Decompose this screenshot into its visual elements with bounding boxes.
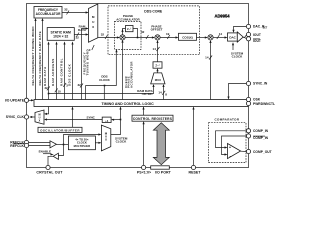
- static RAM box: [47, 28, 74, 41]
- svg-text:ACCUMULATOR: ACCUMULATOR: [116, 18, 140, 22]
- svg-text:19: 19: [166, 32, 170, 36]
- I/O PORT pin pad: [151, 166, 172, 175]
- delta frequency ramp rate wire: [38, 18, 44, 100]
- svg-text:I/O UPDATE: I/O UPDATE: [5, 99, 25, 103]
- control registers box: [132, 115, 173, 121]
- svg-text:10: 10: [58, 89, 62, 93]
- SYNC_IN pin: [246, 81, 268, 85]
- OSK multiplier: [208, 35, 213, 40]
- svg-text:SYNC_CLK: SYNC_CLK: [6, 115, 25, 119]
- wire ram to mux, 32 bits, RAM DATA: [74, 25, 88, 40]
- svg-text:COMP_IN: COMP_IN: [253, 129, 269, 133]
- wire node down to crystal out buffer: [58, 145, 63, 156]
- svg-text:CONTROL REGISTERS: CONTROL REGISTERS: [133, 117, 173, 121]
- svg-text:Z−¹: Z−¹: [155, 63, 159, 67]
- svg-text:DAC: DAC: [229, 35, 236, 39]
- DAC_RSET wire: [232, 27, 246, 33]
- svg-text:14: 14: [153, 47, 157, 51]
- svg-text:IOUT: IOUT: [253, 33, 261, 37]
- phase offset adder: [155, 35, 160, 40]
- refclk bypass wire to system mux: [64, 133, 102, 144]
- svg-text:IOUT: IOUT: [253, 39, 261, 43]
- wire cos to OSK multiplier: [197, 36, 208, 38]
- oscillator/buffer label box: [38, 127, 82, 132]
- SYNC_IN routing wire: [227, 84, 246, 100]
- wire phase offset adder to cos, 19 bits: [160, 32, 178, 39]
- wire oscillator to control bar: [71, 107, 73, 128]
- timing and control logic bar: [34, 100, 248, 107]
- I/O UPDATE pin wire: [29, 99, 34, 101]
- system clock label and wire into DAC: [231, 42, 244, 59]
- svg-text:32: 32: [64, 8, 68, 12]
- svg-text:RESET: RESET: [189, 170, 202, 174]
- I/O UPDATE pin: [5, 98, 29, 102]
- svg-text:OFFSET: OFFSET: [151, 28, 163, 32]
- wire mux to phase accumulator adder, 32 bits: [98, 32, 120, 39]
- COMP_INB routing wire: [222, 136, 247, 155]
- PWRDWNCTL pin: [246, 101, 275, 106]
- ENABLE label and wire: [39, 150, 54, 156]
- svg-text:SYNC_IN: SYNC_IN: [253, 82, 268, 86]
- wire OSK multiplier to DAC, 14 bits: [213, 32, 227, 39]
- wire clock multiplier to system mux: [95, 142, 101, 144]
- frequency mux: [89, 4, 98, 42]
- svg-text:M: M: [92, 15, 95, 19]
- sync clock mux: [35, 110, 44, 124]
- z-1 register in phase accumulator: [126, 26, 134, 32]
- PS pin: [137, 165, 151, 174]
- svg-text:32: 32: [77, 83, 81, 87]
- svg-text:−: −: [229, 154, 231, 158]
- svg-text:MULTIPLIER: MULTIPLIER: [74, 144, 91, 148]
- wire to crystal out pin: [48, 156, 53, 166]
- dds clock wire into phase accumulator: [86, 49, 118, 99]
- comparator triangle: [228, 144, 241, 159]
- phase offset mux: [151, 73, 165, 84]
- RAM DATA 31:18 label: [137, 89, 153, 96]
- svg-text:RAM CONTROL: RAM CONTROL: [60, 58, 64, 86]
- svg-text:32: 32: [76, 36, 80, 40]
- COMP_IN pin: [246, 129, 268, 133]
- svg-text:1024 × 32: 1024 × 32: [53, 34, 68, 38]
- svg-text:AD9954: AD9954: [215, 14, 231, 19]
- phase offset label: [151, 24, 163, 31]
- REFCLKB pin: [10, 143, 28, 147]
- svg-text:+: +: [229, 145, 231, 149]
- svg-text:TUNING WORD: TUNING WORD: [86, 49, 90, 76]
- I/O port gray arrow: [153, 123, 169, 165]
- phase accumulator feedback loop: [121, 29, 138, 39]
- svg-text:14: 14: [158, 90, 162, 94]
- DAC_RSET pin: [246, 24, 267, 29]
- REFCLK pin: [10, 140, 28, 144]
- svg-text:32: 32: [101, 32, 105, 36]
- svg-text:SYNC: SYNC: [86, 116, 95, 120]
- COMP_OUT pin: [246, 149, 271, 154]
- PS pins wire: [143, 121, 145, 166]
- wire control bar to sync mux: [44, 107, 49, 116]
- ram data wire into static ram: [43, 42, 50, 100]
- DAC block: [228, 32, 244, 42]
- RESET pin: [189, 165, 202, 174]
- crystal out buffer: [53, 153, 58, 159]
- clear phase accumulator wire: [121, 40, 133, 100]
- SYNC wire from divider to sync mux: [44, 116, 102, 121]
- COMP_INB pin: [246, 134, 268, 140]
- CRYSTAL OUT pin: [36, 165, 63, 174]
- phase mux input from control, 14/8: [158, 84, 167, 100]
- svg-text:÷4: ÷4: [105, 119, 109, 123]
- wire freq acc to mux, 32 bits: [62, 8, 89, 15]
- wire phase acc out to phase offset adder, 32 bits: [125, 30, 155, 39]
- ram address wire: [51, 42, 61, 100]
- svg-text:PWRDWNCTL: PWRDWNCTL: [253, 102, 275, 106]
- wire phase mux to z-1: [156, 68, 158, 73]
- chip boundary: [27, 4, 249, 168]
- cos(x) box: [179, 33, 197, 40]
- DAC output wires to IOUT pins: [243, 35, 246, 39]
- IOUT pin: [246, 32, 260, 37]
- OSK scale wire from control, 14 bits: [205, 40, 212, 100]
- wire system clock to divider: [111, 119, 121, 121]
- svg-text:OSCILLATOR/BUFFER: OSCILLATOR/BUFFER: [40, 129, 80, 133]
- svg-text:ACCUMULATOR: ACCUMULATOR: [36, 12, 62, 16]
- svg-text:DELTA FREQUENCY RAMP RATE: DELTA FREQUENCY RAMP RATE: [38, 31, 42, 85]
- comparator dashed box: [209, 123, 247, 163]
- svg-text:Z−¹: Z−¹: [127, 27, 131, 31]
- svg-text:COMP_IN: COMP_IN: [253, 136, 269, 140]
- refclk input buffer: [50, 141, 56, 148]
- DDS core dashed box: [108, 6, 200, 55]
- svg-text:COMPARATOR: COMPARATOR: [215, 117, 240, 121]
- svg-text:<31:18>: <31:18>: [142, 92, 153, 96]
- svg-text:RAM DATA: RAM DATA: [43, 66, 47, 86]
- svg-text:DDS CLOCK: DDS CLOCK: [68, 63, 72, 86]
- svg-text:I/O PORT: I/O PORT: [155, 170, 172, 174]
- svg-text:14: 14: [219, 32, 223, 36]
- z-1 register phase offset path: [153, 62, 162, 68]
- phase accumulator label: [116, 14, 140, 21]
- svg-text:ENABLE: ENABLE: [39, 150, 51, 154]
- delta frequency tuning word wire: [31, 18, 36, 100]
- svg-text:SET: SET: [263, 27, 268, 30]
- RESET wire: [192, 107, 194, 166]
- svg-text:ACCUMULATOR: ACCUMULATOR: [129, 61, 133, 88]
- wire buffer to clock multiplier with node: [56, 144, 68, 146]
- svg-text:DELTA FREQUENCY TUNING WORD: DELTA FREQUENCY TUNING WORD: [31, 26, 35, 86]
- svg-text:MUX: MUX: [155, 78, 161, 82]
- phase accumulator dashed box: [115, 21, 142, 49]
- 4x to 20x clock multiplier box: [68, 136, 95, 150]
- divide by 4 box: [102, 117, 111, 123]
- IOUTB pin: [246, 37, 260, 44]
- wire comparator to COMP_OUT: [241, 150, 247, 152]
- system clock wire up to control bar: [111, 107, 128, 144]
- svg-text:REFCLK: REFCLK: [10, 144, 24, 148]
- svg-text:X: X: [105, 138, 107, 142]
- svg-text:CLOCK: CLOCK: [116, 140, 127, 144]
- dds clock wire into static ram: [68, 42, 74, 100]
- svg-text:COMP_OUT: COMP_OUT: [253, 150, 272, 154]
- frequency tuning word wire from control to mux: [77, 27, 89, 99]
- svg-text:CLOCK: CLOCK: [99, 78, 110, 82]
- svg-text:14: 14: [205, 55, 209, 59]
- SYNC_CLK pin wire: [29, 116, 35, 118]
- COMP_IN routing wire: [216, 131, 247, 148]
- ram control wire: [60, 42, 69, 100]
- svg-text:COS(X): COS(X): [182, 35, 193, 39]
- SYNC_CLK pin: [6, 115, 29, 119]
- svg-text:PS<1:0>: PS<1:0>: [137, 170, 151, 174]
- svg-text:32: 32: [141, 30, 145, 34]
- wire ram data branch to phase offset mux: [49, 84, 155, 94]
- phase offset source wire from control with z-1 and mux: [153, 40, 160, 62]
- wire control registers to control bar: [142, 107, 144, 116]
- svg-text:CRYSTAL OUT: CRYSTAL OUT: [36, 170, 63, 174]
- svg-text:RAM ADDRESS: RAM ADDRESS: [51, 58, 55, 86]
- OSK pin: [246, 97, 260, 101]
- mux 0 input: [89, 45, 94, 52]
- svg-text:CLOCK: CLOCK: [232, 55, 243, 59]
- frequency accumulator box: [34, 7, 62, 19]
- svg-text:TIMING AND CONTROL LOGIC: TIMING AND CONTROL LOGIC: [101, 102, 154, 106]
- REFCLK wires to input buffer: [29, 143, 50, 146]
- system clock mux: [101, 125, 110, 151]
- phase accumulator adder: [120, 35, 125, 40]
- svg-text:DDS CORE: DDS CORE: [144, 10, 163, 14]
